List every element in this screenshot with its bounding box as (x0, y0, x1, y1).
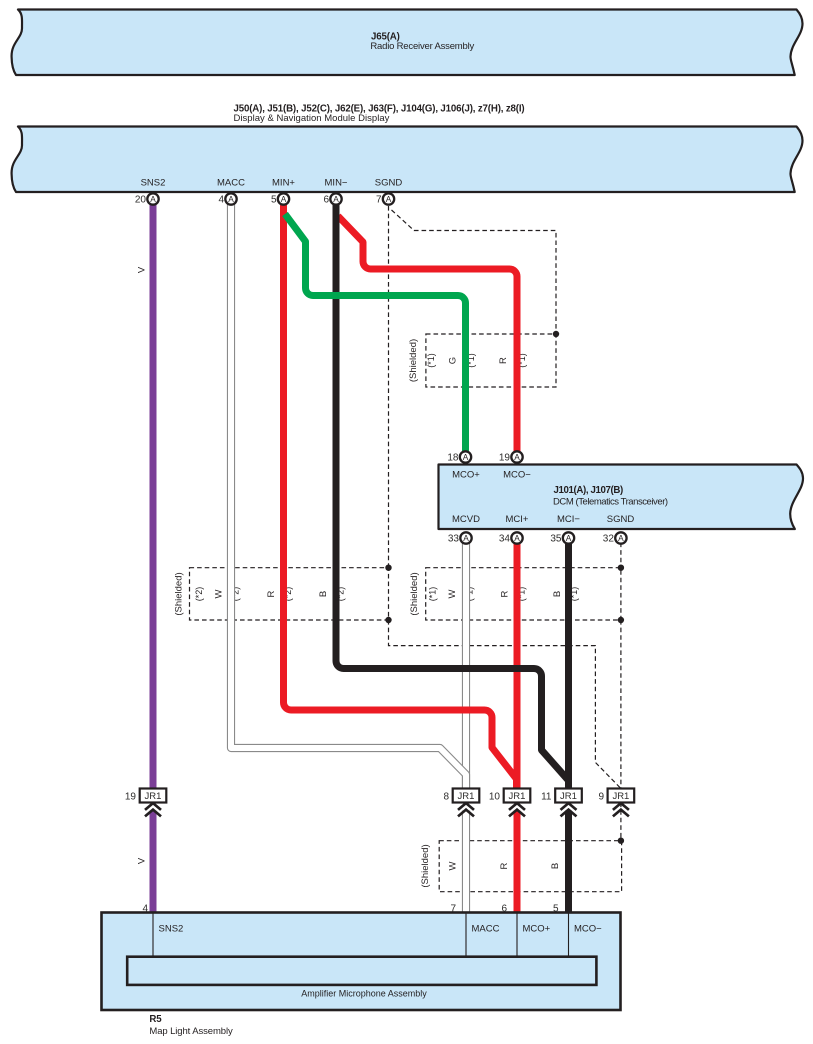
junction dot bottom shield box (618, 838, 624, 844)
junction dot top shield box (553, 331, 559, 337)
svg-text:6: 6 (501, 904, 507, 915)
svg-text:11: 11 (541, 792, 552, 803)
svg-text:JR1: JR1 (612, 791, 629, 802)
svg-text:J101(A), J107(B): J101(A), J107(B) (554, 485, 623, 496)
svg-text:B: B (318, 591, 329, 597)
svg-text:MCO−: MCO− (574, 924, 602, 935)
wire B MCI- (black) (565, 543, 572, 789)
junction dot mid-left shield box bottom (385, 617, 391, 623)
svg-text:G: G (447, 357, 458, 364)
svg-text:5: 5 (553, 904, 559, 915)
connector JR1 pin 19 (125, 789, 166, 817)
svg-text:(*1): (*1) (428, 587, 438, 602)
svg-text:MIN−: MIN− (325, 178, 348, 189)
svg-text:6: 6 (323, 195, 329, 206)
svg-text:4: 4 (142, 904, 148, 915)
svg-text:MCI+: MCI+ (506, 514, 529, 525)
svg-text:33: 33 (448, 534, 460, 545)
shield drain dashed from SGND pin 7 down (388, 206, 390, 568)
pin 4 circle A (218, 193, 236, 205)
pin 6 circle A (323, 193, 341, 205)
svg-text:B: B (550, 863, 561, 869)
internal division line MCO- (568, 914, 570, 957)
svg-text:SNS2: SNS2 (159, 924, 184, 935)
inner rect (127, 957, 596, 985)
shield box bottom (Shielded) W R B (439, 841, 621, 892)
shield drain dashed pin7 diagonal to top shield box (392, 210, 557, 334)
shield drain dashed SGND pin32 down (620, 543, 622, 568)
wire G MCO+ (green) from MIN+ splice to DCM pin18 (285, 214, 466, 453)
junction dot mid-right shield box bottom (618, 617, 624, 623)
connector JR1 pin 9 (598, 789, 634, 817)
svg-text:R: R (500, 590, 511, 597)
svg-text:Map Light Assembly: Map Light Assembly (149, 1026, 233, 1037)
svg-text:DCM (Telematics Transceiver): DCM (Telematics Transceiver) (553, 497, 668, 508)
svg-text:A: A (514, 452, 520, 462)
junction dot mid-left shield box top (385, 565, 391, 571)
svg-text:R5: R5 (149, 1014, 162, 1025)
pin 18 circle A (447, 451, 471, 463)
DCM box J101(A), J107(B) (439, 465, 804, 530)
svg-text:B: B (552, 591, 563, 597)
svg-text:Amplifier Microphone Assembly: Amplifier Microphone Assembly (301, 989, 427, 999)
wire R MIN+ (red) (284, 204, 517, 789)
svg-text:R: R (498, 357, 509, 364)
shield drain dashed JR1 9 to bottom shield box (620, 803, 622, 841)
svg-text:8: 8 (443, 792, 449, 803)
connector banner J50(A) Display & Navigation Module Display (12, 127, 803, 193)
svg-text:A: A (333, 194, 339, 204)
svg-text:(Shielded): (Shielded) (408, 339, 419, 382)
svg-text:SGND: SGND (375, 178, 403, 189)
wire B below JR1 11 (565, 811, 572, 914)
svg-text:MCI−: MCI− (557, 514, 580, 525)
svg-text:(Shielded): (Shielded) (174, 572, 185, 615)
svg-text:R: R (266, 590, 277, 597)
svg-text:20: 20 (135, 195, 147, 206)
svg-text:A: A (566, 533, 572, 543)
svg-text:V: V (136, 266, 147, 273)
pin 32 circle A (603, 532, 627, 544)
svg-text:W: W (447, 589, 458, 598)
svg-text:MACC: MACC (472, 924, 500, 935)
svg-text:(Shielded): (Shielded) (409, 572, 420, 615)
svg-text:W: W (447, 861, 458, 870)
wire V SNS2 (purple) (150, 204, 157, 789)
shield box mid-right (Shielded)(*1) W R B (426, 568, 621, 620)
svg-text:5: 5 (271, 195, 277, 206)
internal division line MACC (465, 914, 467, 957)
wire R MCO- (red) from MIN- splice to DCM pin19 (338, 216, 517, 453)
svg-text:JR1: JR1 (145, 791, 162, 802)
shield box mid-left (Shielded)(*2) W R B (190, 568, 389, 620)
svg-text:(*1): (*1) (426, 353, 436, 368)
svg-text:JR1: JR1 (560, 791, 577, 802)
svg-text:18: 18 (447, 453, 459, 464)
connector JR1 pin 10 (489, 789, 530, 817)
wire R MCI+ (red) (514, 543, 521, 789)
svg-text:Radio Receiver Assembly: Radio Receiver Assembly (370, 41, 474, 52)
svg-text:SGND: SGND (607, 514, 635, 525)
pin 5 circle A (271, 193, 289, 205)
wire W MACC (white) (231, 204, 466, 789)
pin 33 circle A (448, 532, 472, 544)
pin 35 circle A (550, 532, 574, 544)
svg-text:Display & Navigation Module Di: Display & Navigation Module Display (234, 113, 390, 124)
svg-text:(Shielded): (Shielded) (420, 844, 431, 887)
shield box top (Shielded)(*1) G R (426, 334, 556, 387)
shield drain dashed left box to JR1 9 (389, 620, 621, 789)
internal division line SNS2 (152, 914, 154, 957)
svg-text:A: A (150, 194, 156, 204)
pin 19 circle A (499, 451, 523, 463)
svg-text:SNS2: SNS2 (141, 178, 166, 189)
svg-text:A: A (463, 452, 469, 462)
svg-text:32: 32 (603, 534, 615, 545)
svg-text:MIN+: MIN+ (272, 178, 295, 189)
svg-text:10: 10 (489, 792, 501, 803)
svg-text:4: 4 (218, 195, 224, 206)
pin 20 circle A (135, 193, 159, 205)
pin 7 circle A (376, 193, 394, 205)
junction dot mid-right shield box top (618, 565, 624, 571)
svg-text:9: 9 (598, 792, 604, 803)
svg-text:MACC: MACC (217, 178, 245, 189)
svg-text:A: A (228, 194, 234, 204)
svg-text:V: V (137, 857, 148, 864)
svg-text:19: 19 (125, 792, 137, 803)
connector JR1 pin 11 (541, 789, 582, 817)
svg-text:A: A (281, 194, 287, 204)
connector banner J65(A) Radio Receiver Assembly (12, 10, 803, 76)
connector JR1 pin 8 (443, 789, 479, 817)
svg-text:35: 35 (550, 534, 562, 545)
svg-text:A: A (463, 533, 469, 543)
svg-text:MCO+: MCO+ (452, 470, 480, 481)
svg-text:MCO+: MCO+ (523, 924, 551, 935)
internal division line MCO+ (516, 914, 518, 957)
svg-text:34: 34 (499, 534, 511, 545)
svg-text:7: 7 (450, 904, 456, 915)
svg-text:MCO−: MCO− (503, 470, 531, 481)
wire V below JR1 19 (150, 811, 157, 914)
shield drain dashed right box to JR1 9 (620, 620, 622, 789)
svg-text:19: 19 (499, 453, 511, 464)
svg-text:A: A (386, 194, 392, 204)
wire W below JR1 8 (462, 811, 470, 914)
svg-text:7: 7 (376, 195, 382, 206)
svg-text:R: R (499, 862, 510, 869)
R5 Amplifier Microphone Assembly box (102, 913, 621, 1011)
svg-text:JR1: JR1 (509, 791, 526, 802)
pin 34 circle A (499, 532, 523, 544)
svg-text:W: W (214, 589, 225, 598)
svg-text:JR1: JR1 (458, 791, 475, 802)
wire B MIN- (black) (336, 204, 569, 789)
svg-text:(*2): (*2) (194, 587, 204, 602)
svg-text:A: A (618, 533, 624, 543)
svg-text:A: A (514, 533, 520, 543)
svg-text:MCVD: MCVD (452, 514, 480, 525)
wire R below JR1 10 (514, 811, 521, 914)
wire W MCVD (white) (462, 543, 470, 789)
